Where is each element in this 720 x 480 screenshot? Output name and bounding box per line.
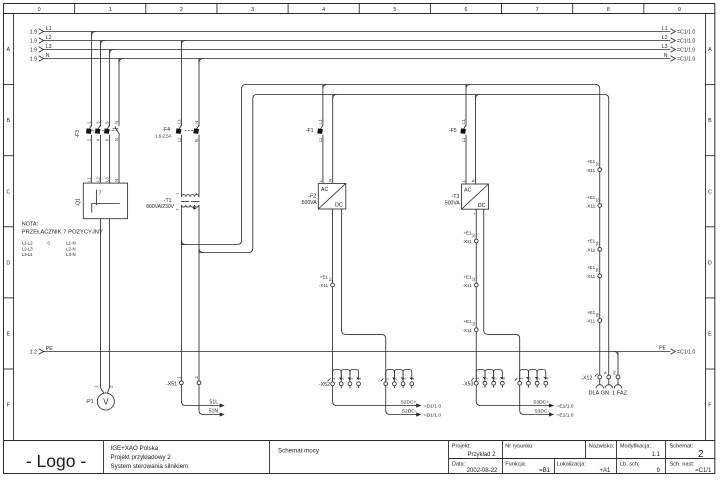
svg-text:2: 2 — [528, 377, 532, 379]
svg-text:1.2: 1.2 — [30, 350, 37, 356]
wire X51 to 51L — [181, 385, 219, 406]
label 51N arrow — [209, 409, 225, 417]
svg-text:L1: L1 — [176, 137, 181, 142]
wire F3 to Q1 pole2 — [100, 135, 102, 183]
svg-text:-X11: -X11 — [462, 283, 472, 288]
svg-text:4: 4 — [322, 7, 325, 13]
note NOTA — [22, 221, 103, 257]
wire X51 to 51N — [199, 385, 220, 415]
svg-text:4: 4 — [358, 378, 362, 380]
svg-text:L: L — [319, 180, 323, 182]
svg-text:Lb. sch:: Lb. sch: — [620, 461, 640, 467]
svg-text:51L: 51L — [210, 400, 219, 406]
border row ticks — [4, 85, 715, 369]
wire L2 drop to F3 — [100, 41, 102, 127]
svg-text:Lokalizacja:: Lokalizacja: — [557, 461, 587, 467]
svg-text:L2-L3: L2-L3 — [22, 246, 34, 251]
svg-text:2: 2 — [485, 377, 489, 379]
svg-text:-F2: -F2 — [308, 193, 316, 199]
wire bus1 drop to F5 — [465, 85, 467, 126]
svg-text:DLA GN. 1 FAZ.: DLA GN. 1 FAZ. — [589, 391, 630, 397]
svg-text:Nr rysunku:: Nr rysunku: — [505, 444, 534, 450]
label S3DC+ arrow — [533, 400, 574, 410]
svg-text:+A1: +A1 — [599, 468, 611, 474]
svg-text:Data:: Data: — [452, 461, 466, 467]
svg-text:=C1/1.0: =C1/1.0 — [677, 57, 695, 63]
svg-text:L1-N: L1-N — [66, 241, 75, 246]
wire N drop to F4 — [198, 59, 200, 127]
node tap L1 to F3 — [92, 32, 96, 36]
fuse F4 — [155, 119, 199, 143]
terminal strip X52 — [319, 370, 415, 389]
svg-text:Funkcja:: Funkcja: — [505, 461, 527, 467]
svg-text:S3DC+: S3DC+ — [533, 400, 549, 406]
svg-text:DC: DC — [335, 203, 343, 209]
svg-text:4: 4 — [545, 377, 549, 379]
svg-text:L3: L3 — [105, 177, 110, 182]
svg-text:A: A — [6, 47, 10, 53]
svg-text:N: N — [329, 179, 333, 182]
svg-text:2: 2 — [394, 378, 398, 380]
svg-text:6: 6 — [464, 7, 467, 13]
wire X12 to socket N — [608, 379, 610, 385]
svg-text:L2: L2 — [96, 177, 101, 182]
svg-text:L1: L1 — [176, 119, 181, 124]
svg-text:1.9: 1.9 — [30, 39, 37, 45]
wire bus1 drop to F1 — [322, 85, 324, 126]
svg-text:+E1: +E1 — [587, 310, 596, 315]
svg-text:=C1/1: =C1/1 — [695, 468, 712, 474]
title block name cell — [557, 444, 615, 474]
wire L1 drop to F3 — [91, 32, 93, 127]
title block schemat cell — [670, 444, 712, 474]
node branch 230V bus1 — [181, 240, 185, 244]
svg-text:N: N — [46, 53, 50, 59]
svg-text:-X11: -X11 — [586, 248, 596, 253]
svg-text:Modyfikacja:: Modyfikacja: — [620, 444, 652, 450]
svg-text:34: 34 — [472, 322, 476, 326]
svg-text:4: 4 — [502, 377, 506, 379]
svg-text:-F3: -F3 — [75, 130, 81, 138]
terminals X11 on T3 wire — [462, 230, 478, 333]
svg-text:-Q1: -Q1 — [76, 198, 82, 207]
svg-text:10: 10 — [329, 277, 333, 281]
svg-text:+E1: +E1 — [463, 230, 472, 235]
node tap PE to X12 — [614, 352, 618, 356]
svg-text:-X12: -X12 — [581, 375, 592, 381]
wire T1 secondary left down — [180, 205, 182, 381]
svg-text:+E1: +E1 — [587, 239, 596, 244]
svg-text:30: 30 — [472, 233, 476, 237]
svg-text:4: 4 — [411, 378, 415, 380]
svg-text:D: D — [708, 260, 712, 266]
svg-text:7: 7 — [99, 190, 102, 196]
wire T3 DC- down to X53 — [475, 209, 477, 381]
wire X53 to S3DC- — [520, 385, 549, 414]
svg-text:L2: L2 — [46, 35, 52, 41]
terminal strip X53 — [462, 370, 549, 388]
svg-text:System sterowania silnikiem: System sterowania silnikiem — [111, 463, 189, 470]
node tap L3 to F3 — [110, 50, 114, 54]
wire N drop to F3 — [118, 59, 120, 127]
svg-text:L1: L1 — [87, 177, 92, 182]
svg-text:=D1/1.0: =D1/1.0 — [424, 413, 442, 419]
svg-text:1.1: 1.1 — [651, 452, 660, 458]
terminal X11 on F2 wire — [319, 274, 335, 288]
svg-text:E: E — [6, 331, 10, 337]
svg-text:L2: L2 — [662, 35, 668, 41]
svg-text:S3DC-: S3DC- — [534, 409, 549, 415]
svg-text:+E1: +E1 — [587, 195, 596, 200]
svg-text:2002-08-22: 2002-08-22 — [467, 468, 498, 474]
svg-text:-T1: -T1 — [164, 198, 172, 204]
svg-text:2: 2 — [698, 449, 704, 460]
title block project cell — [452, 444, 498, 474]
svg-text:L1: L1 — [461, 119, 466, 124]
svg-text:500VA: 500VA — [302, 200, 318, 206]
wire F5 to T3 — [465, 135, 467, 184]
svg-text:-F5: -F5 — [449, 128, 457, 134]
svg-text:DC: DC — [478, 203, 486, 209]
wire F3 to Q1 pole4 — [118, 135, 120, 183]
svg-text:-X11: -X11 — [462, 328, 472, 333]
node tap L2 to F4 — [181, 41, 185, 45]
svg-text:2: 2 — [341, 378, 345, 380]
svg-text:5: 5 — [393, 7, 396, 13]
wire potential line N — [30, 53, 696, 63]
svg-text:+E1: +E1 — [587, 265, 596, 270]
svg-text:1.9: 1.9 — [30, 57, 37, 63]
svg-text:L2-N: L2-N — [66, 246, 75, 251]
svg-text:=C1/1.0: =C1/1.0 — [677, 30, 695, 36]
node branch 230V bus2 — [199, 248, 203, 252]
svg-text:-X11: -X11 — [319, 283, 329, 288]
svg-text:C: C — [708, 189, 712, 195]
svg-text:N: N — [604, 371, 608, 374]
svg-text:N: N — [664, 53, 668, 59]
border row letters — [6, 47, 712, 409]
border inner left line — [13, 14, 15, 441]
svg-text:-X11: -X11 — [586, 319, 596, 324]
title block modification cell — [620, 444, 661, 474]
node tap bus1 to F5 — [466, 85, 470, 89]
converter T3 AC/DC — [445, 179, 489, 216]
svg-text:Projekt przykładowy 2: Projekt przykładowy 2 — [111, 454, 172, 461]
label 51L arrow — [210, 400, 225, 408]
wire F3 to Q1 pole1 — [91, 135, 93, 183]
svg-text:L: L — [462, 180, 466, 182]
svg-text:3: 3 — [251, 7, 254, 13]
wire X53 to S3DC+ — [476, 385, 549, 405]
fuse F1 — [306, 119, 323, 143]
svg-text:S2DC+: S2DC+ — [400, 400, 416, 406]
svg-text:1: 1 — [175, 193, 179, 195]
svg-text:-X11: -X11 — [586, 168, 596, 173]
svg-text:-X53: -X53 — [462, 381, 473, 387]
svg-text:52: 52 — [596, 198, 600, 202]
title block company — [111, 445, 189, 470]
wire X52 to S2DC+ — [333, 386, 417, 406]
svg-text:PE: PE — [659, 345, 666, 351]
svg-text:=C1/1.0: =C1/1.0 — [677, 350, 695, 356]
socket L — [596, 385, 604, 389]
node tap bus2 to F1 — [333, 95, 337, 99]
label S2DC+ arrow — [400, 400, 441, 410]
svg-text:Sch. nast:: Sch. nast: — [670, 461, 695, 467]
border column numbers — [38, 7, 681, 13]
svg-text:A: A — [708, 47, 712, 53]
wire F2 DC- down to X52 — [332, 209, 334, 382]
svg-text:D: D — [6, 260, 10, 266]
svg-text:Schemat:: Schemat: — [670, 444, 694, 450]
svg-text:PRZEŁĄCZNIK 7 POZYCYJNY: PRZEŁĄCZNIK 7 POZYCYJNY — [22, 230, 103, 236]
svg-text:-X51: -X51 — [166, 381, 177, 387]
svg-text:AC: AC — [321, 187, 329, 193]
svg-text:50: 50 — [596, 162, 600, 166]
wire X12 to socket PE — [617, 379, 619, 385]
voltmeter P1 — [85, 385, 114, 410]
wire bus2 drop to T3 — [475, 95, 477, 185]
svg-text:-X11: -X11 — [586, 204, 596, 209]
svg-text:=C1/1.0: =C1/1.0 — [677, 39, 695, 45]
svg-text:L1: L1 — [318, 119, 323, 124]
svg-text:58: 58 — [596, 313, 600, 317]
wire F1 to F2 — [322, 135, 324, 184]
svg-text:N: N — [194, 139, 199, 142]
wire potential line L1 — [30, 26, 696, 36]
switch Q1 — [76, 177, 128, 219]
wire X52 to S2DC- — [386, 386, 416, 415]
svg-text:L3-L1: L3-L1 — [22, 252, 34, 257]
svg-text:-F1: -F1 — [306, 128, 314, 134]
wire X12 to socket L — [599, 379, 601, 385]
title block drawing nr cell — [505, 444, 550, 474]
svg-text:IGE+XAO Polska: IGE+XAO Polska — [111, 445, 159, 452]
svg-text:1: 1 — [332, 378, 336, 380]
svg-text:7: 7 — [536, 7, 539, 13]
border column ticks — [75, 4, 644, 14]
svg-text:PE: PE — [613, 370, 617, 374]
svg-text:L1: L1 — [46, 26, 52, 32]
node tap bus2 to F5 — [476, 95, 480, 99]
svg-text:800VA/230V: 800VA/230V — [146, 204, 174, 210]
svg-text:-X11: -X11 — [462, 239, 472, 244]
svg-text:N: N — [194, 121, 199, 124]
wire Q1 to P1 right — [107, 219, 109, 394]
svg-text:=E1/1.0: =E1/1.0 — [557, 404, 574, 410]
svg-text:C: C — [6, 189, 10, 195]
label S2DC- arrow — [402, 409, 442, 419]
svg-text:N: N — [114, 138, 119, 141]
node tap bus1 to F1 — [323, 85, 327, 89]
wire F4 to T1 left — [180, 135, 182, 197]
svg-text:AC: AC — [464, 188, 472, 194]
wire L2 drop to F4 — [180, 41, 182, 127]
svg-text:3: 3 — [493, 377, 497, 379]
wire potential line L3 — [30, 44, 696, 54]
wire F4 to T1 right — [198, 135, 200, 197]
svg-text:-P1: -P1 — [85, 399, 93, 405]
svg-text:=E1/1.0: =E1/1.0 — [557, 413, 574, 419]
svg-text:Przykład 2: Przykład 2 — [467, 452, 496, 458]
svg-text:-F4: -F4 — [162, 127, 170, 133]
svg-text:9: 9 — [678, 7, 681, 13]
svg-text:Nazwisko:: Nazwisko: — [589, 444, 615, 450]
svg-text:=B1: =B1 — [539, 468, 551, 474]
converter F2 AC/DC — [302, 179, 346, 216]
border inner right line — [705, 14, 707, 441]
wire L3 drop to F3 — [109, 50, 111, 127]
svg-text:8: 8 — [607, 7, 610, 13]
wire F3 to Q1 pole3 — [109, 135, 111, 183]
title block grid — [104, 441, 715, 474]
wire PE line — [30, 345, 696, 355]
svg-text:N: N — [114, 121, 119, 124]
wire Q1 to P1 left — [101, 219, 105, 394]
svg-text:-T3: -T3 — [452, 194, 460, 200]
wire 230V bus1 — [181, 85, 599, 376]
wire T3 DC+ jog to X53 group B — [484, 209, 520, 381]
svg-text:L1: L1 — [318, 137, 323, 142]
svg-text:3: 3 — [537, 377, 541, 379]
svg-text:3: 3 — [350, 378, 354, 380]
svg-text:1: 1 — [476, 377, 480, 379]
svg-text:N: N — [472, 179, 476, 182]
svg-text:PE: PE — [46, 346, 53, 352]
svg-text:+E1: +E1 — [463, 319, 472, 324]
svg-text:E: E — [708, 331, 712, 337]
svg-text:1.9: 1.9 — [30, 30, 37, 36]
svg-text:56: 56 — [596, 268, 600, 272]
svg-text:1: 1 — [519, 377, 523, 379]
svg-text:2: 2 — [194, 193, 198, 195]
svg-text:L1: L1 — [662, 26, 668, 32]
border title top line — [4, 440, 715, 442]
svg-text:Projekt:: Projekt: — [452, 444, 471, 450]
svg-text:0: 0 — [38, 7, 41, 13]
breaker F3 — [75, 121, 120, 141]
border inner top line — [4, 13, 715, 15]
svg-text:-X52: -X52 — [319, 382, 330, 388]
svg-text:B: B — [708, 118, 712, 124]
svg-text:+E1: +E1 — [320, 274, 329, 279]
svg-text:=D1/1.0: =D1/1.0 — [424, 404, 442, 410]
wire bus2 drop to F2 — [332, 95, 334, 184]
svg-text:S2DC-: S2DC- — [402, 409, 417, 415]
svg-text:3: 3 — [175, 209, 179, 211]
svg-text:NOTA:: NOTA: — [22, 221, 39, 227]
svg-text:L1: L1 — [461, 137, 466, 142]
wire PE drop to X12 — [617, 352, 619, 376]
svg-text:Schemat mocy: Schemat mocy — [278, 447, 320, 454]
svg-text:1.9: 1.9 — [30, 48, 37, 54]
svg-text:L3-N: L3-N — [66, 252, 75, 257]
svg-text:+E1: +E1 — [463, 274, 472, 279]
terminal strip X12 — [581, 370, 620, 381]
svg-text:L1-L2: L1-L2 — [22, 241, 34, 246]
wire 230V bus2 — [199, 95, 609, 376]
svg-text:51N: 51N — [209, 409, 219, 415]
terminals X11 right column — [586, 159, 602, 324]
svg-text:32: 32 — [472, 277, 476, 281]
svg-text:- Logo -: - Logo - — [26, 451, 86, 471]
node tap N to F3 — [119, 59, 123, 63]
svg-text:-X11: -X11 — [586, 274, 596, 279]
terminal strip X51 — [166, 376, 201, 388]
svg-text:B: B — [6, 118, 10, 124]
svg-text:54: 54 — [596, 242, 600, 246]
label S3DC- arrow — [534, 409, 573, 419]
node tap N to F4 — [199, 59, 203, 63]
svg-text:1,6-2,5A: 1,6-2,5A — [155, 134, 171, 139]
node tap L2 to F3 — [101, 41, 105, 45]
fuse F5 — [449, 119, 466, 143]
svg-text:=C1/1.0: =C1/1.0 — [677, 48, 695, 54]
transformer T1 — [146, 193, 199, 211]
socket PE — [614, 385, 622, 389]
socket N — [605, 385, 613, 389]
wire T1 secondary right down — [198, 205, 200, 381]
svg-text:500VA: 500VA — [445, 201, 461, 207]
wire F2 DC+ jog to X52 group B — [342, 209, 386, 382]
svg-text:+E1: +E1 — [587, 159, 596, 164]
svg-text:V: V — [103, 397, 109, 406]
svg-text:1: 1 — [385, 378, 389, 380]
svg-text:L3: L3 — [46, 44, 52, 50]
wire potential line L2 — [30, 35, 696, 45]
svg-text:3: 3 — [403, 378, 407, 380]
svg-text:1: 1 — [109, 7, 112, 13]
svg-text:N: N — [114, 179, 119, 182]
svg-text:2: 2 — [180, 7, 183, 13]
svg-text:L3: L3 — [662, 44, 668, 50]
